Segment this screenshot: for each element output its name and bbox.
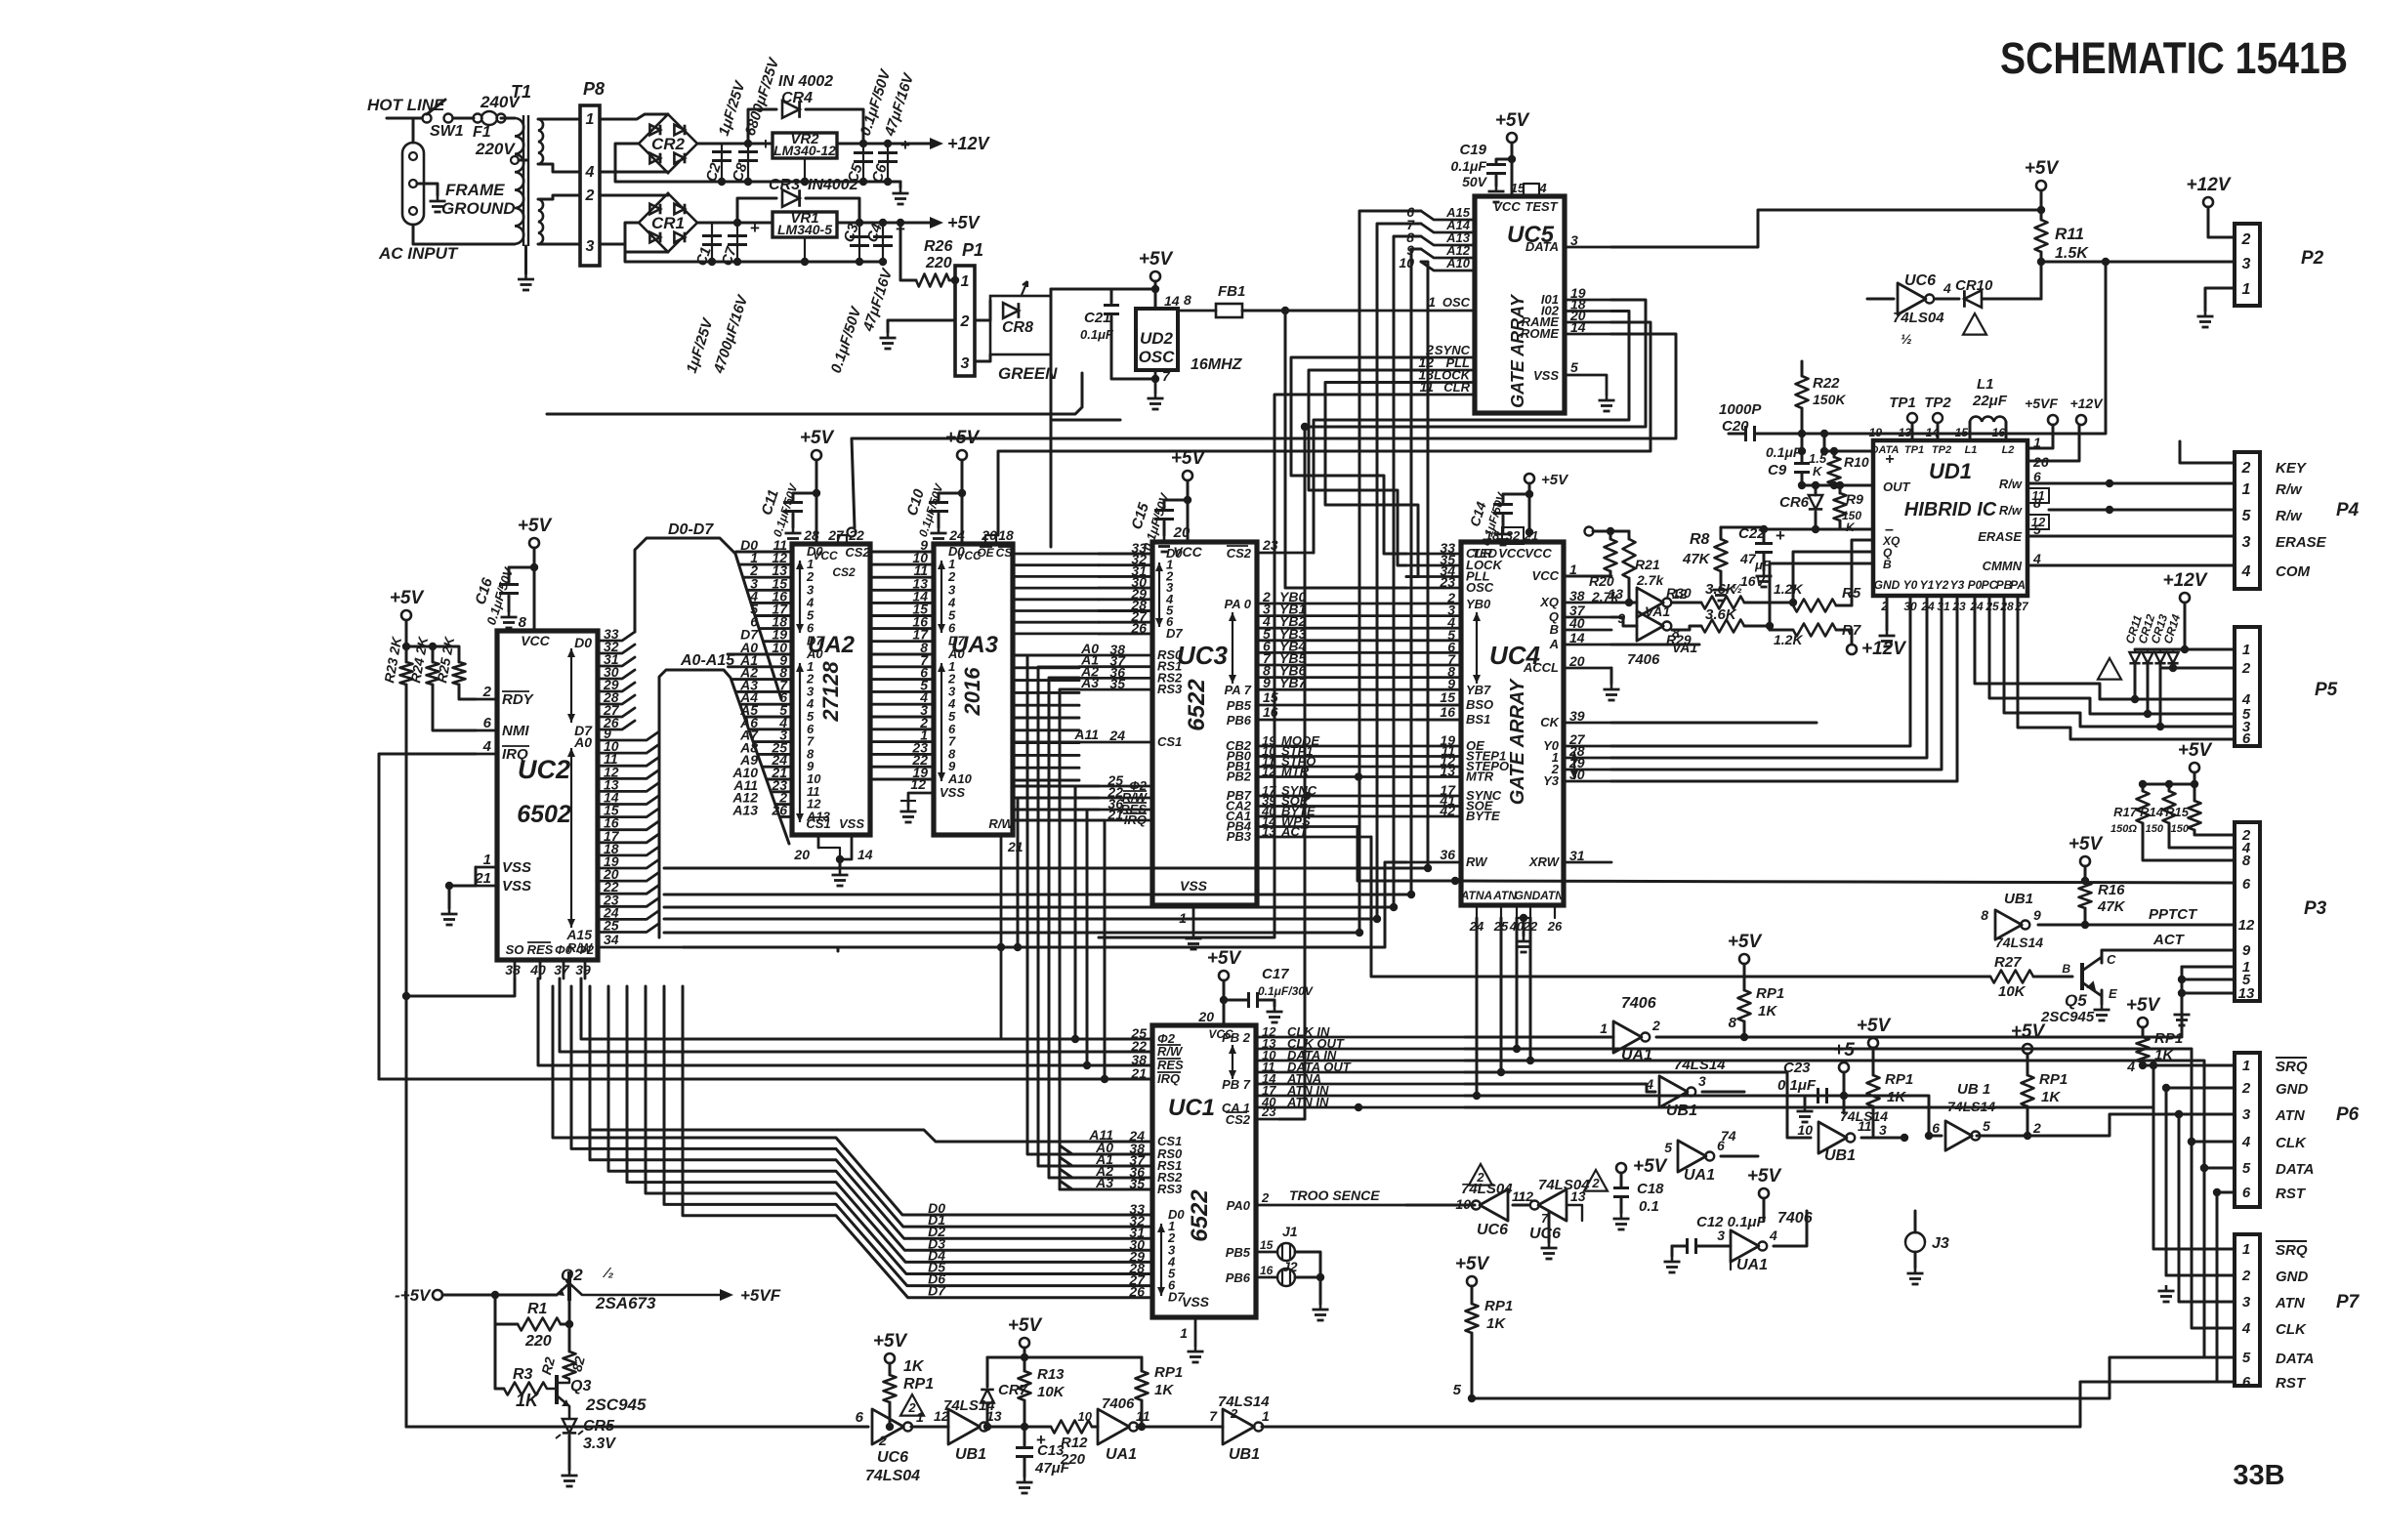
wire UA1 c ground stem [1730,1260,1732,1269]
svg-text:2: 2 [2241,1080,2251,1097]
svg-text:A13: A13 [731,802,758,817]
svg-text:47K: 47K [1682,551,1711,567]
wire VR2 output [837,143,918,146]
svg-text:Φ2: Φ2 [576,942,595,957]
ground UA2 VSS [839,869,842,875]
wire UC4 VCC +5V and C14 [1528,483,1531,536]
svg-text:0.1μF: 0.1μF [1766,444,1802,460]
svg-text:13: 13 [1608,586,1623,602]
svg-text:1K: 1K [1154,1382,1174,1398]
svg-text:A10: A10 [1445,256,1471,271]
wire UC1 VCC +5V C17 [1223,980,1226,1025]
wire continue right to P3 region [1744,967,2182,1037]
svg-text:14: 14 [1570,319,1586,335]
svg-text:BYTE: BYTE [1466,809,1500,823]
svg-text:ATNA: ATNA [1460,889,1492,902]
svg-text:150K: 150K [1813,392,1846,407]
ground P2 [2204,311,2207,316]
svg-text:+5V: +5V [2011,1021,2046,1042]
svg-text:C19: C19 [1459,142,1486,158]
svg-text:2: 2 [2241,660,2251,677]
svg-text:CLR: CLR [1443,380,1470,395]
svg-text:14: 14 [1164,293,1180,309]
svg-text:E: E [2109,986,2117,1001]
wire to UD1 minus pin 21 [1816,528,1840,531]
svg-text:2016: 2016 [960,667,984,717]
svg-text:16MHZ: 16MHZ [1191,356,1243,373]
svg-text:PB5: PB5 [1226,1245,1251,1260]
wire UC1 ATN IN to UB1 c [1465,1096,1942,1136]
wire RP1 to P6 pin1 [2143,1064,2235,1067]
svg-text:RP1: RP1 [903,1376,934,1393]
ground UC5 VSS [1606,395,1609,400]
test point TP2 [1933,413,1943,423]
svg-text:RDY: RDY [502,691,535,708]
svg-text:6502: 6502 [517,801,571,828]
UC3 pin CS1 24 [1079,741,1152,744]
terminal +5V RP1 a [1739,954,1749,964]
UC3 right control pins [1257,745,1461,748]
svg-text:1K: 1K [1758,1003,1777,1020]
svg-text:+: + [900,136,910,154]
wire UC6 right input down ground [1567,1205,1582,1221]
ground R8 [1720,584,1723,590]
terminal +5V UA3 [957,450,967,460]
terminal +12V [2203,197,2213,207]
svg-text:J2: J2 [1282,1259,1298,1274]
svg-text:6: 6 [2242,876,2251,893]
svg-text:VCC: VCC [1498,546,1525,561]
svg-text:47μF/16V: 47μF/16V [859,266,896,335]
wire UC3 VCC +5V and C15 [1187,480,1190,542]
svg-text:8: 8 [1981,907,1988,923]
svg-text:+5V: +5V [2178,740,2213,761]
svg-text:DATA: DATA [2276,1161,2314,1178]
svg-text:36: 36 [1440,847,1455,862]
svg-text:L2: L2 [2002,444,2015,456]
wires P3 pins 1 5 13 common [2182,967,2235,1009]
bridge rectifier CR2 [639,114,697,173]
svg-text:1: 1 [2242,281,2251,298]
connector P8 [580,105,600,266]
svg-text:+5V: +5V [1541,472,1569,488]
wire UC6 input from left [1867,298,1894,301]
ground UD2 [1154,393,1157,398]
svg-text:3: 3 [2242,1294,2251,1311]
bus pack UA3 to UC3 [1013,553,1099,556]
voltage regulator VR1 LM340-5 [773,212,837,237]
UC4 left pins BS0 BS1 [1416,704,1461,707]
resistor R21 2.7K [1628,531,1631,539]
wire R15 to P3 pin2 [2194,830,2235,835]
wire R/W row to UC4 RW [684,862,1406,947]
UC1 PB5 PB6 jumpers J1 J2 [1256,1251,1277,1254]
svg-text:UC6: UC6 [877,1449,908,1466]
svg-text:1: 1 [1262,1408,1270,1424]
arrow +12V [918,143,930,146]
svg-text:18: 18 [998,527,1014,543]
svg-text:12: 12 [2031,515,2046,529]
svg-text:Φ0: Φ0 [555,942,573,957]
svg-text:+5V: +5V [518,516,553,536]
svg-text:HIBRID IC: HIBRID IC [1904,499,1997,520]
svg-text:1K: 1K [903,1358,925,1375]
UA2 data pins [736,551,792,554]
svg-text:PB2: PB2 [1227,770,1252,784]
svg-text:1: 1 [2033,435,2041,450]
svg-text:AC INPUT: AC INPUT [378,244,459,263]
svg-text:3: 3 [2242,534,2251,551]
diodes CR11 CR12 CR13 CR14 [2134,649,2136,652]
ic UC2 6502 [497,631,598,960]
wire secondary to P8 pin2 [538,195,580,199]
svg-text:VSS: VSS [839,816,864,831]
svg-text:R/w: R/w [1999,477,2023,491]
bus A14 row to UC5 [664,918,1377,921]
svg-text:220: 220 [1060,1451,1086,1468]
wire UB1 to junctions [987,1426,1051,1429]
svg-text:TROO SENCE: TROO SENCE [1289,1187,1380,1203]
svg-text:12: 12 [2238,917,2255,934]
svg-text:RES: RES [527,942,554,957]
UC1 right PB pins [1256,1036,1465,1039]
svg-text:MTR: MTR [1466,770,1494,784]
svg-text:3.6K: 3.6K [1705,581,1737,598]
UC2 data pins D0-D7 [598,632,635,641]
svg-text:6: 6 [483,715,492,731]
wire UC4 Y0 to UD1 [1611,602,1910,746]
wire P8 pin3 to CR1 bottom [600,244,668,252]
wire UD1 RW2 to P4 pin5 [2049,509,2235,512]
wire secondary 1 to P8 pin1 [538,118,580,121]
svg-text:+5V: +5V [390,588,425,608]
fuse F1 [453,117,474,120]
switch SW1 [423,114,432,123]
svg-text:BS1: BS1 [1466,712,1490,727]
wire top rail CR7 R13 RP1 [987,1356,1142,1359]
wire UD1 ERASE to P4 pin3 [2027,535,2235,538]
svg-text:5: 5 [2242,508,2252,524]
svg-text:+5V: +5V [1633,1156,1668,1177]
terminal +5V UA1 c [1759,1188,1769,1198]
wire UD1 CMMN to P4 pin4 [2027,564,2235,567]
svg-text:XRW: XRW [1528,854,1561,869]
svg-text:2: 2 [878,1433,887,1448]
svg-text:ERASE: ERASE [2276,534,2327,551]
svg-text:1: 1 [2242,642,2250,658]
wire R30 junction up to UD1 Q [1793,552,1873,603]
wire UD1 PA to P5 [2018,596,2235,739]
wire up to UD1 B [1770,563,1873,630]
flag 2 [900,1394,924,1416]
ground UC3 VSS [1192,933,1195,938]
svg-text:P4: P4 [2336,500,2360,520]
ground UC1 VSS [1194,1346,1197,1352]
svg-text:RES: RES [1157,1058,1184,1072]
svg-text:R/W: R/W [988,816,1015,831]
svg-text:RW: RW [1466,854,1488,869]
wires CR bottoms to P5 rows [2134,665,2137,699]
svg-text:OSC: OSC [1442,295,1471,310]
svg-text:34: 34 [604,932,619,947]
svg-text:4: 4 [585,164,595,181]
wire UC6 to UB1 [911,1426,948,1429]
svg-text:VCC: VCC [1525,546,1552,561]
wire CR6 R9 junction left [1764,528,1816,531]
wire R24 to NMI [433,685,476,730]
svg-text:Y3: Y3 [1950,578,1965,592]
svg-text:CLK: CLK [2276,1135,2307,1151]
svg-text:1: 1 [1180,1325,1188,1341]
svg-text:74LS14: 74LS14 [1218,1394,1270,1410]
wire UC5 PLL to UC4 LOCK [1309,370,1428,565]
svg-text:1.2K: 1.2K [1774,632,1803,647]
svg-text:F1: F1 [473,124,491,141]
svg-text:VSS: VSS [1182,1294,1210,1310]
svg-text:D7: D7 [1166,626,1183,641]
svg-text:RP1: RP1 [1484,1298,1513,1314]
svg-text:220: 220 [524,1333,552,1350]
svg-text:UD1: UD1 [1929,459,1972,483]
svg-text:35: 35 [1109,676,1125,691]
svg-text:PA 7: PA 7 [1225,683,1252,697]
wire TROO SENCE to UC6 [1406,1204,1475,1207]
svg-text:UC3: UC3 [1177,641,1229,670]
svg-text:+5V: +5V [1747,1166,1782,1186]
svg-text:C: C [2107,952,2116,967]
wire UC3 WPS row down [1358,827,1455,882]
svg-text:C18: C18 [1637,1181,1664,1197]
svg-text:1: 1 [916,1409,924,1425]
svg-text:Y1: Y1 [1920,578,1935,592]
wire UB1 a output [1702,1091,1744,1094]
UC5 right pins [1565,246,1611,249]
wire UC3 IRQ down to IRQ row [1099,820,1105,1079]
ic UA2 27128 [792,544,870,835]
wire secondary to P8 pin3 [538,243,580,246]
svg-text:1.5K: 1.5K [2055,245,2089,262]
svg-text:A0: A0 [573,734,592,750]
svg-text:GND: GND [1874,578,1901,592]
connector P2 [2235,224,2260,306]
wire R25 to RDY [459,685,476,699]
ic UD1 hybrid [1873,440,2027,596]
resistor R9 150K [1839,485,1842,493]
svg-text:R9: R9 [1846,491,1863,507]
connector P7 [2235,1234,2260,1386]
svg-text:+: + [750,219,760,237]
LED CR8 assembly [975,301,990,320]
terminal +5V UC2 [529,538,539,548]
ground J1 J2 [1319,1304,1322,1310]
svg-text:UC6: UC6 [1904,272,1936,289]
svg-text:VCC: VCC [521,633,550,648]
svg-text:42: 42 [1439,803,1455,818]
svg-text:UB1: UB1 [955,1446,986,1463]
svg-text:ROME: ROME [1521,326,1559,341]
svg-text:8: 8 [519,614,527,631]
bus pack UA3 to UC3 address rows [1013,654,1079,657]
svg-text:3: 3 [1717,1228,1725,1243]
svg-text:+12V: +12V [2187,175,2232,195]
svg-text:UB1: UB1 [1666,1103,1697,1119]
wire OUT pin 22 [1802,484,1873,487]
wire UD2 pin7 ground [1154,370,1157,393]
svg-text:UC6: UC6 [1477,1222,1508,1238]
UC5 left control pins [1428,356,1475,359]
svg-text:PB 7: PB 7 [1222,1077,1251,1092]
svg-text:Q5: Q5 [2065,991,2087,1010]
svg-text:23: 23 [1951,600,1966,613]
svg-text:5: 5 [1453,1382,1462,1398]
UC3 left pins D0-D7 [1099,553,1152,556]
wire Q to VA1 lower [1611,617,1637,626]
svg-text:13: 13 [1899,426,1912,439]
svg-text:R3: R3 [513,1366,533,1383]
svg-text:74LS04: 74LS04 [1538,1177,1590,1193]
wire Q2 base down [568,1301,571,1324]
svg-text:14: 14 [1569,630,1585,645]
wire UC5 VCC C19 +5V [1511,143,1514,196]
svg-text:A0-A15: A0-A15 [680,652,735,669]
wire UC2 VCC +5V [533,548,536,631]
svg-text:2SC945: 2SC945 [2040,1009,2095,1025]
svg-text:ATN: ATN [2275,1295,2306,1311]
svg-text:RP1: RP1 [2039,1071,2068,1088]
svg-text:1: 1 [2242,1241,2250,1258]
svg-text:+5V: +5V [2126,995,2161,1016]
svg-text:R/W: R/W [1157,1044,1184,1059]
svg-text:2: 2 [585,187,595,204]
UC5 VSS pin 5 [1565,375,1607,395]
wire UC2 VSS ground [475,867,478,886]
svg-text:74: 74 [1721,1128,1736,1144]
wire UC5 CLR down left [1099,395,1428,937]
ground P7 GND [2165,1274,2168,1277]
svg-text:UB1: UB1 [2004,891,2033,907]
wire UD1 PC to P5 [1989,596,2235,714]
svg-text:22μF: 22μF [1972,393,2008,409]
svg-text:CS2: CS2 [1227,546,1252,561]
ground P7 pin2 [2165,1285,2168,1291]
resistor R1 220 [495,1295,518,1324]
bus D0-D7 from mid pack to UC1 [553,986,1152,1215]
svg-text:15: 15 [1440,689,1455,705]
wire hot line to switch [387,117,422,120]
svg-text:C12 0.1μF: C12 0.1μF [1696,1214,1767,1230]
svg-text:TP2: TP2 [1932,444,1951,456]
svg-text:40: 40 [1568,615,1585,631]
svg-text:GND: GND [2276,1081,2309,1098]
svg-text:SRQ: SRQ [2276,1059,2308,1075]
svg-text:38: 38 [505,962,521,978]
terminal +5V R23 [401,610,411,620]
svg-text:OSC: OSC [1466,580,1494,595]
wire RP1 d line right [1472,1357,2235,1398]
resistor R3 1K [495,1295,504,1389]
svg-text:CLK: CLK [2276,1321,2307,1338]
svg-text:CR10: CR10 [1955,277,1993,294]
resistor R10 1.5K [1833,451,1836,457]
svg-text:31: 31 [1569,848,1585,863]
wire UD1 PB to P5 [2004,596,2235,727]
svg-text:CMMN: CMMN [1983,559,2023,573]
svg-text:IN4002: IN4002 [808,177,858,193]
UA3 address pins [870,653,934,656]
UC5 left address pins [1421,211,1475,220]
arrow +5VF [720,1289,733,1301]
svg-text:0.1μF/50V: 0.1μF/50V [828,304,865,376]
wire UD1 RW to P4 pin1 [2027,482,2235,485]
svg-text:5: 5 [1570,359,1578,375]
svg-text:1K: 1K [1486,1315,1506,1332]
svg-text:PB3: PB3 [1227,829,1252,844]
svg-text:7406: 7406 [1102,1395,1135,1412]
resistor R12 [1051,1421,1092,1434]
svg-text:J3: J3 [1932,1235,1949,1252]
svg-text:74LS04: 74LS04 [865,1468,920,1484]
connector P5 [2235,627,2260,746]
svg-text:HOT LINE: HOT LINE [367,96,445,114]
svg-text:40: 40 [529,962,546,978]
svg-text:12: 12 [910,776,926,792]
svg-text:ACCL: ACCL [1523,660,1559,675]
svg-text:B: B [1883,558,1892,571]
svg-text:+5V: +5V [1207,948,1242,969]
svg-text:VSS: VSS [940,785,965,800]
wire P1 pin2 ground [888,320,955,332]
svg-text:R11: R11 [2055,225,2084,243]
wire +5V rail to UD2 OSC region [1051,288,1150,291]
svg-text:FRAME: FRAME [445,181,505,199]
UC3 right PA pins YB0-YB7 [1257,603,1461,605]
svg-text:0.1: 0.1 [1639,1198,1659,1215]
svg-text:6522: 6522 [1184,679,1210,731]
svg-text:1: 1 [961,273,970,290]
svg-text:ATN: ATN [1492,889,1517,902]
ground Q5 [2101,1004,2104,1010]
wire UC3 phi2 down to phi2 row [1075,786,1099,1039]
zener CR5 3.3V [563,1419,576,1433]
ground UD1 GND pin [1886,596,1889,630]
svg-text:5: 5 [1983,1118,1990,1134]
svg-text:D0-D7: D0-D7 [668,521,714,538]
wire to P6 ATN [2027,1114,2235,1136]
svg-text:4: 4 [2241,1320,2251,1337]
svg-text:R10: R10 [1844,454,1869,470]
svg-text:3: 3 [586,238,595,255]
wire UC6 gates link [1513,1204,1528,1207]
svg-text:4: 4 [1769,1228,1777,1243]
svg-text:37: 37 [554,962,570,978]
svg-text:39: 39 [575,962,591,978]
test point TP1 [1907,413,1917,423]
svg-text:R14: R14 [2140,805,2164,819]
capacitor C5 [862,144,864,182]
svg-text:9: 9 [1263,675,1271,690]
svg-text:5: 5 [1664,1140,1672,1155]
svg-text:K: K [1813,464,1823,479]
UC5 OSC pin 1 [1359,310,1475,312]
svg-text:27128: 27128 [818,661,843,723]
UC4 right pins [1564,575,1611,578]
svg-text:2SC945: 2SC945 [585,1395,647,1414]
svg-text:-+5V: -+5V [395,1286,432,1305]
inverter UA1 7406 c [1731,1230,1759,1262]
svg-text:CK: CK [1540,715,1560,729]
svg-text:4: 4 [2241,563,2251,580]
svg-text:+5V: +5V [2069,834,2104,854]
